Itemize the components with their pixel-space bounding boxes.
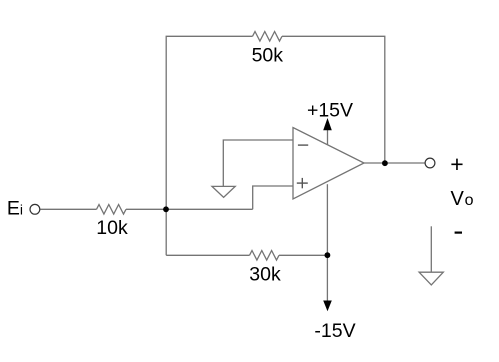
wire output to terminal: [364, 162, 425, 164]
terminal circle input Ei: [30, 204, 40, 214]
wire negative supply down to node: [326, 184, 328, 300]
wire +15V supply stub: [327, 130, 329, 145]
label - (output polarity): [455, 232, 462, 234]
svg-text:+15V: +15V: [307, 100, 353, 122]
ground G2 (output reference): [419, 272, 443, 285]
wire minus input branch: [223, 140, 293, 186]
wire output ground stub: [430, 226, 432, 272]
wire 10k to plus-branch corner: [126, 208, 253, 210]
wire top rail right segment: [282, 36, 385, 163]
junction node B (output/feedback): [382, 160, 388, 166]
svg-text:10k: 10k: [96, 217, 128, 239]
svg-text:50k: 50k: [252, 44, 284, 66]
svg-text:+: +: [450, 151, 463, 177]
resistor R2 30k zigzag: [250, 251, 280, 261]
arrowhead +15V: [323, 118, 332, 130]
svg-text:Vo: Vo: [451, 188, 474, 210]
svg-text:-15V: -15V: [314, 320, 355, 342]
arrowhead -15V: [323, 301, 332, 312]
wire 30k to supply node: [279, 254, 327, 256]
wire plus input branch: [253, 186, 293, 209]
wire top rail left segment: [166, 36, 252, 255]
resistor R_f 50k zigzag: [253, 32, 283, 42]
op-amp minus pin symbol: [298, 144, 308, 146]
op-amp plus pin symbol: [297, 178, 308, 188]
svg-text:30k: 30k: [249, 263, 281, 285]
op-amp U1 triangle: [293, 128, 364, 200]
junction node C (30k / -15V): [325, 252, 331, 258]
junction node A (input summing node): [163, 206, 169, 212]
wire bottom rail left of 30k: [166, 254, 249, 256]
ground G1 (inverting input reference): [212, 186, 235, 197]
terminal circle output: [425, 158, 435, 168]
wire input Ei to 10k: [40, 208, 96, 210]
resistor R_in 10k zigzag: [97, 205, 127, 215]
svg-text:Ei: Ei: [7, 198, 23, 220]
